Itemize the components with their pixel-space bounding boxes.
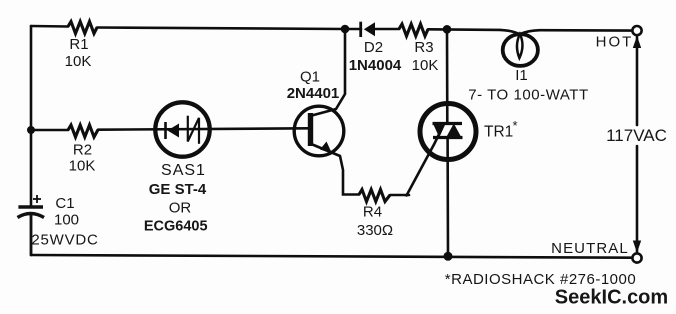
svg-text:OR: OR — [169, 200, 192, 217]
svg-text:330Ω: 330Ω — [357, 222, 393, 239]
svg-text:HOT: HOT — [596, 34, 634, 51]
svg-text:10K: 10K — [69, 158, 96, 175]
svg-text:100: 100 — [54, 212, 79, 229]
svg-text:R3: R3 — [414, 39, 433, 56]
svg-text:D2: D2 — [364, 39, 383, 56]
svg-text:*: * — [513, 118, 518, 133]
svg-text:25WVDC: 25WVDC — [31, 232, 98, 249]
svg-text:TR1: TR1 — [484, 124, 513, 141]
svg-text:1N4004: 1N4004 — [349, 57, 402, 74]
svg-text:SAS1: SAS1 — [161, 162, 206, 179]
svg-text:7- TO 100-WATT: 7- TO 100-WATT — [468, 87, 589, 104]
svg-text:SeekIC.com: SeekIC.com — [555, 287, 668, 309]
svg-text:NEUTRAL: NEUTRAL — [551, 240, 629, 257]
svg-text:I1: I1 — [515, 67, 528, 84]
svg-text:R1: R1 — [69, 36, 88, 53]
svg-text:Q1: Q1 — [300, 69, 320, 86]
svg-text:C1: C1 — [55, 195, 74, 212]
svg-text:2N4401: 2N4401 — [287, 85, 340, 102]
svg-text:R2: R2 — [73, 142, 92, 159]
svg-text:10K: 10K — [412, 57, 439, 74]
svg-text:R4: R4 — [363, 204, 382, 221]
svg-text:GE ST-4: GE ST-4 — [149, 181, 207, 198]
svg-text:ECG6405: ECG6405 — [144, 219, 208, 235]
svg-text:*RADIOSHACK #276-1000: *RADIOSHACK #276-1000 — [445, 271, 636, 288]
svg-text:10K: 10K — [65, 53, 92, 70]
svg-text:117VAC: 117VAC — [606, 126, 667, 145]
